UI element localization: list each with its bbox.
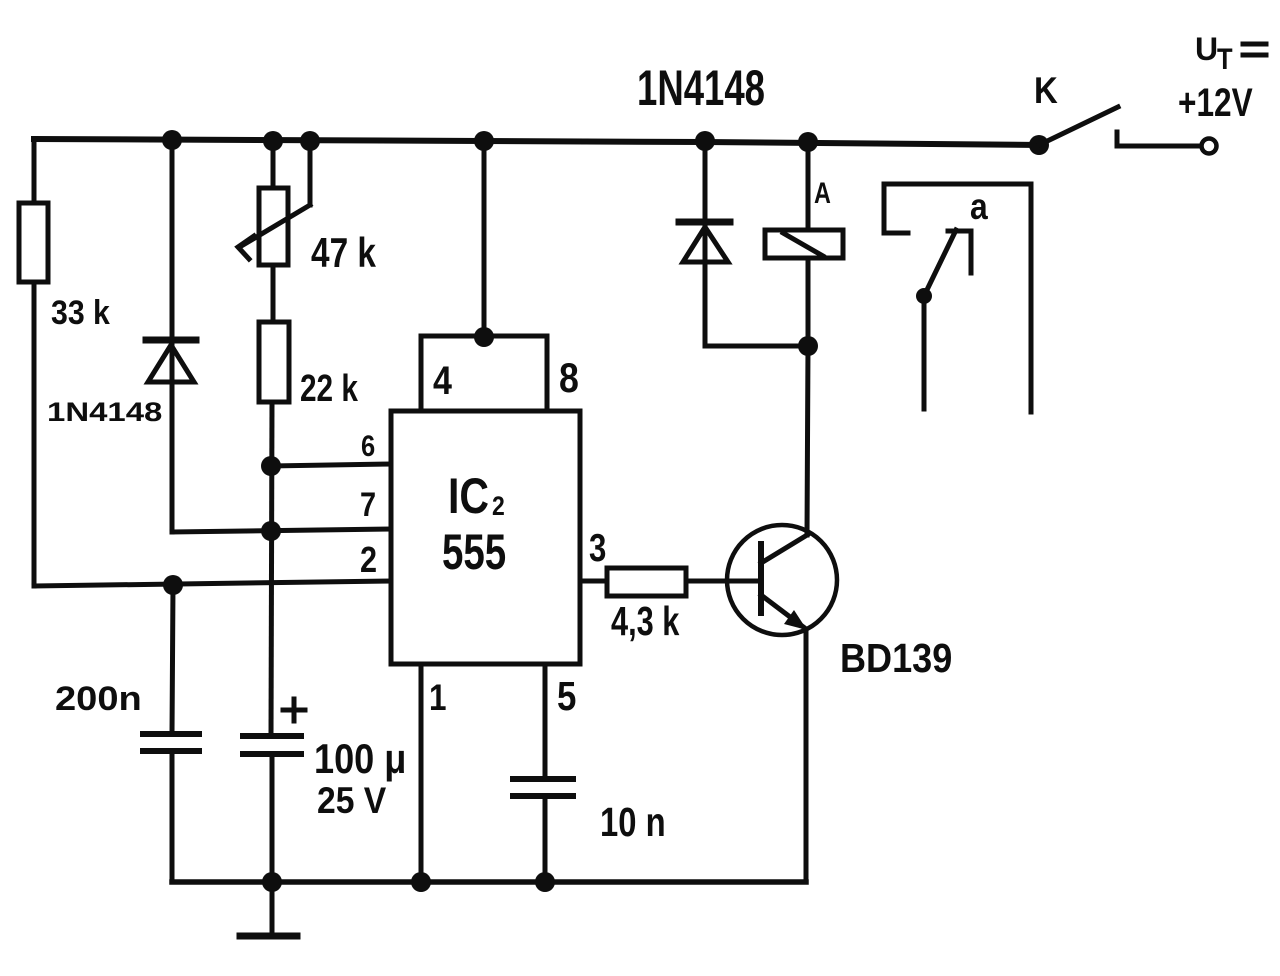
svg-text:3: 3	[589, 527, 606, 570]
wire 4.3k to transistor base	[686, 579, 761, 584]
relay contact a fixed terminal	[948, 231, 971, 273]
wire flyback diode bottom to collector node	[705, 344, 808, 349]
ground symbol	[240, 882, 297, 936]
resistor 4.3k body	[607, 568, 686, 596]
svg-text:555: 555	[442, 525, 506, 580]
wire 200n to bottom rail	[170, 751, 175, 882]
wire pin 3 to base resistor	[580, 579, 607, 584]
junction dot rail at 47k branch	[263, 131, 283, 151]
junction dot rail at diode branch	[162, 130, 182, 150]
label IC2	[448, 468, 505, 524]
junction dot rail at wiper branch	[300, 131, 320, 151]
wire pin 5 to 10n	[543, 664, 548, 779]
wire relay contact bracket	[884, 184, 1031, 412]
wire pin 2	[34, 581, 391, 586]
wire 10n to bottom rail	[543, 796, 548, 882]
svg-text:T: T	[1217, 42, 1233, 75]
terminal circle	[1202, 139, 1217, 154]
svg-text:1N4148: 1N4148	[47, 398, 162, 428]
svg-text:1N4148: 1N4148	[637, 60, 765, 116]
junction dot pin6 node	[261, 456, 281, 476]
wire diode branch vertical	[170, 139, 175, 532]
svg-text:6: 6	[361, 429, 375, 462]
capacitor 10n plates	[513, 779, 573, 796]
wire bottom ground rail	[172, 879, 806, 885]
junction dot bottom rail at 10n	[535, 872, 555, 892]
relay coil A body	[765, 230, 843, 258]
wire pin 1 to bottom rail	[419, 664, 424, 882]
potentiometer 47k body	[259, 188, 288, 265]
switch K arm	[1039, 107, 1118, 145]
label UT=	[1195, 31, 1266, 75]
svg-text:33 k: 33 k	[51, 293, 110, 331]
IC2 top tab pins 4 and 8	[421, 336, 547, 411]
junction dot collector node	[798, 336, 818, 356]
svg-text:U: U	[1195, 31, 1218, 67]
wire pin 7 from diode branch	[172, 529, 391, 532]
svg-text:2: 2	[492, 491, 505, 521]
relay contact a moving arm	[916, 230, 956, 304]
wire 100u to bottom rail	[270, 754, 275, 882]
junction dot rail at IC supply	[474, 131, 494, 151]
svg-text:200n: 200n	[55, 679, 142, 718]
wire flyback diode branch	[703, 141, 708, 346]
wire 47k/22k branch top lead	[271, 141, 276, 188]
resistor 22k body	[259, 322, 289, 402]
junction dot rail at flyback diode	[695, 131, 715, 151]
svg-text:K: K	[1034, 70, 1058, 111]
wire from contact arm down	[922, 296, 927, 409]
svg-text:7: 7	[360, 485, 376, 524]
svg-text:22 k: 22 k	[300, 368, 359, 410]
svg-text:8: 8	[559, 355, 579, 401]
wire collector to relay	[807, 141, 808, 535]
op-amp IC2 555 body	[391, 411, 580, 664]
resistor 33k body	[19, 203, 48, 282]
svg-text:5: 5	[557, 674, 576, 719]
svg-text:4: 4	[433, 357, 452, 402]
svg-text:IC: IC	[448, 468, 489, 524]
junction dot bottom rail at 100u	[262, 872, 282, 892]
diode D1 1N4148 (left)	[146, 340, 196, 382]
junction dot pin2/200n node	[163, 575, 183, 595]
wire supply to IC tab	[482, 141, 487, 337]
capacitor 100u plates	[243, 736, 301, 754]
svg-text:1: 1	[429, 678, 446, 719]
label 100u 25V	[314, 737, 406, 822]
diode D2 1N4148 flyback	[679, 222, 730, 262]
wire pin 6	[271, 464, 391, 466]
wire left branch vertical (33k branch)	[32, 139, 37, 586]
junction dot rail at relay branch	[798, 132, 818, 152]
capacitor 200n	[143, 734, 199, 751]
wire 47k to 22k	[271, 265, 276, 322]
wire top supply rail	[34, 139, 1039, 145]
wire switch to terminal	[1117, 132, 1201, 146]
switch K contact dot	[1029, 135, 1049, 155]
wire 200n branch down	[172, 585, 173, 734]
svg-text:100 μ: 100 μ	[314, 737, 406, 783]
junction dot IC tab top	[474, 327, 494, 347]
svg-text:BD139: BD139	[840, 636, 952, 682]
junction dot bottom rail at pin1	[411, 872, 431, 892]
svg-text:25 V: 25 V	[317, 781, 387, 822]
svg-text:4,3 k: 4,3 k	[611, 598, 680, 644]
svg-text:a: a	[970, 187, 988, 228]
svg-text:10 n: 10 n	[600, 798, 666, 844]
svg-text:+12V: +12V	[1178, 79, 1253, 124]
transistor Q1 BD139	[727, 525, 837, 635]
potentiometer 47k wiper arrow	[238, 141, 310, 259]
wire emitter to bottom rail	[804, 629, 809, 882]
svg-text:47 k: 47 k	[311, 230, 377, 276]
label plus sign 100u	[283, 699, 305, 721]
svg-text:2: 2	[360, 541, 377, 581]
wire 22k down to 100u capacitor	[271, 402, 272, 736]
svg-text:A: A	[814, 176, 831, 209]
junction dot pin7 node	[261, 521, 281, 541]
